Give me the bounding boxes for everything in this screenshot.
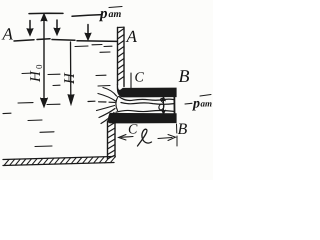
floor hatching: [4, 157, 115, 166]
water dash near wall: [104, 45, 112, 47]
water dash y75 near wall: [96, 74, 106, 76]
delta dimension: [163, 97, 165, 114]
mouthpiece bottom wall: [108, 114, 176, 123]
entrance streamlines fan: [88, 88, 118, 124]
label B bottom: [178, 124, 187, 135]
label H0 rotated: [30, 65, 42, 82]
label p_atm right: [185, 102, 192, 105]
pressure arrow 3: [87, 25, 89, 38]
tank floor: [3, 157, 113, 160]
water dashes y73: [22, 73, 60, 75]
lower wall hatching: [108, 123, 116, 160]
water dash y52: [100, 51, 110, 53]
dimension l right arrow: [158, 138, 172, 139]
atmospheric reference line top-right: [72, 15, 102, 17]
dimension H0: [43, 15, 45, 101]
label H rotated: [64, 72, 74, 84]
water dash y132: [40, 131, 54, 134]
label delta: [159, 98, 164, 110]
water dashes y103: [18, 103, 60, 105]
tank upper right wall: [118, 27, 125, 86]
label A left: [2, 28, 13, 39]
water dash y85: [53, 84, 60, 86]
free surface line: [14, 39, 50, 41]
atmospheric reference line top-left: [29, 12, 63, 14]
water dashes row1: [75, 45, 102, 47]
section B-B dashed extension below: [176, 124, 179, 146]
jet streamlines inside mouthpiece: [116, 97, 174, 113]
label A right: [126, 31, 137, 42]
dimension l left arrow: [121, 136, 133, 139]
label B top: [179, 70, 189, 82]
section C-C tick above pipe: [130, 73, 132, 89]
tank lower right wall: [108, 121, 116, 159]
pressure arrow 2: [56, 20, 58, 33]
label p_atm top: [99, 11, 121, 21]
water dash y113 left edge: [3, 112, 11, 114]
label C top: [135, 72, 144, 81]
water dash y120: [28, 119, 42, 122]
dimension H: [70, 42, 72, 98]
upper wall hatching: [118, 29, 125, 82]
label l script: [138, 129, 152, 146]
label C bottom: [129, 124, 138, 133]
pipe exit edge section B-B: [173, 89, 175, 122]
water dash y146: [35, 145, 52, 148]
mouthpiece top wall: [117, 84, 176, 97]
pressure arrow 1: [29, 21, 31, 34]
